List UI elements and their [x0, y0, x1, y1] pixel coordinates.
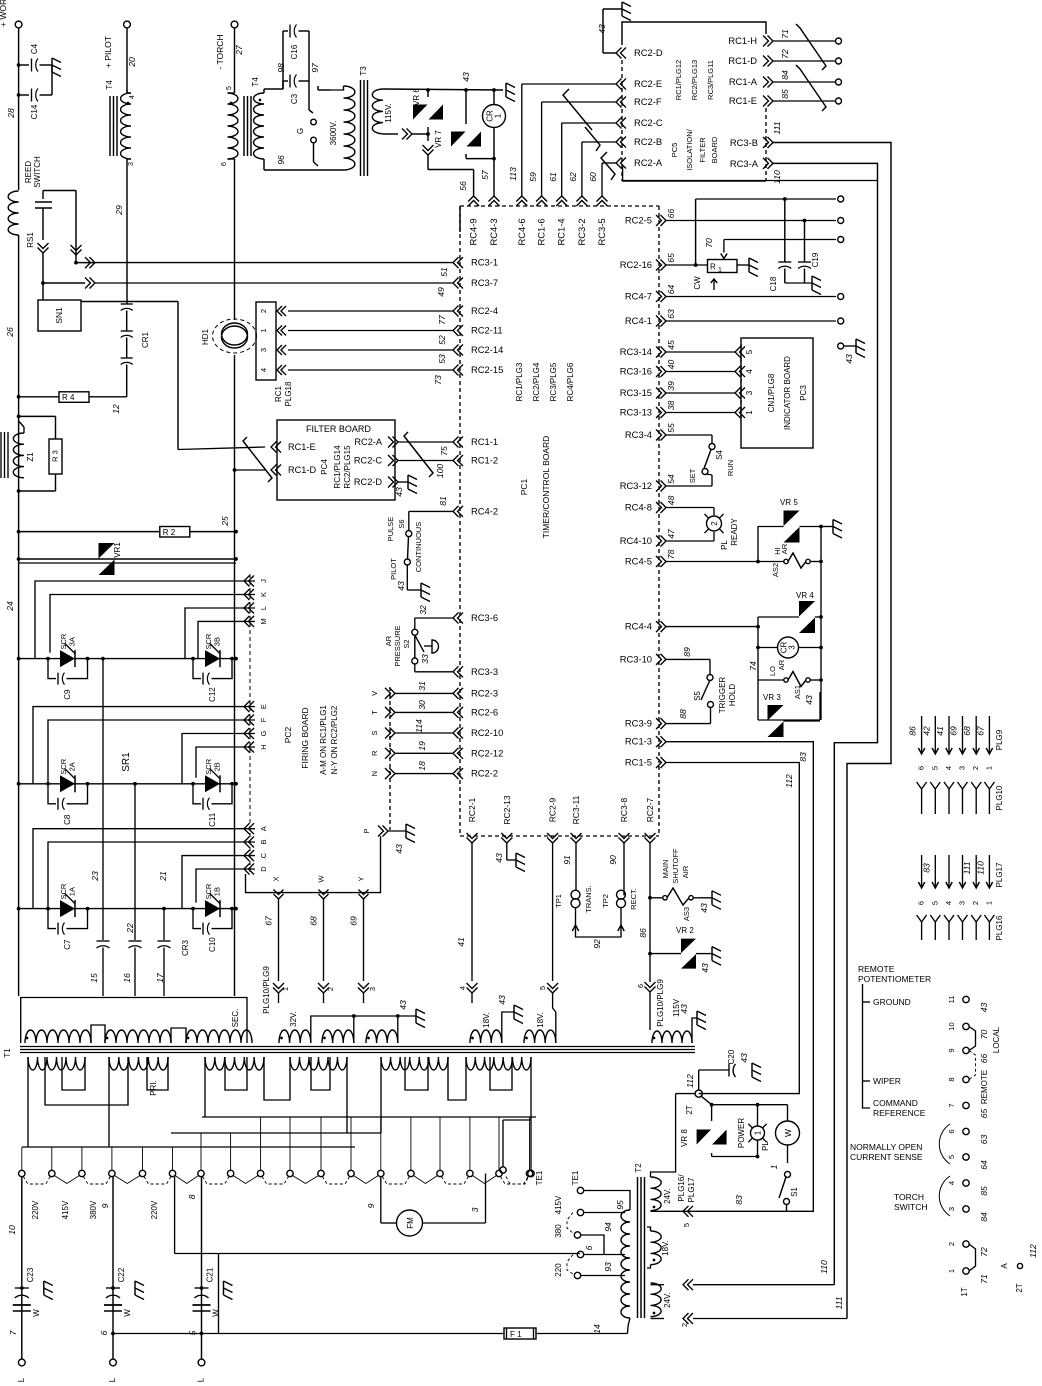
- connector RC2-13 bottom of PC1: [501, 795, 512, 843]
- spark gap G: [296, 119, 318, 166]
- svg-text:21: 21: [158, 871, 168, 882]
- terminal T2 tap 415V: [554, 1187, 584, 1214]
- wire pri bus A: [202, 1116, 536, 1118]
- connector RC1-D on filter: [271, 465, 316, 476]
- svg-text:115V.: 115V.: [384, 103, 393, 123]
- connector pin 1 on PC3: [735, 407, 754, 418]
- label 72: [780, 49, 790, 59]
- svg-text:PC3: PC3: [799, 385, 808, 401]
- svg-text:RC2-6: RC2-6: [471, 706, 498, 717]
- arrow down reed left: [38, 243, 49, 300]
- label 83 bottom: [734, 1195, 744, 1205]
- svg-text:F 1: F 1: [510, 1330, 522, 1339]
- pin PLG16-3: [958, 915, 968, 940]
- svg-text:S1: S1: [790, 1187, 799, 1197]
- board PC3 left dashed edge: [740, 344, 742, 420]
- svg-text:C18: C18: [769, 276, 778, 291]
- svg-text:RC4/PLG6: RC4/PLG6: [566, 362, 575, 401]
- capacitor stack CR1: [121, 304, 150, 392]
- connector RC2-9 bottom of PC1: [547, 797, 558, 843]
- connector R on PC2: [370, 748, 395, 759]
- svg-text:RC2-B: RC2-B: [634, 136, 662, 147]
- wire gate A: [33, 829, 255, 909]
- label 113: [508, 167, 518, 181]
- connector RC3-6 on PC1: [453, 612, 498, 624]
- svg-text:70: 70: [704, 238, 714, 248]
- svg-text:X: X: [272, 876, 281, 881]
- svg-text:380: 380: [554, 1224, 563, 1238]
- label 43 above PC5: [597, 24, 607, 34]
- thyristor SCR 3A: [59, 633, 77, 667]
- wire main bus to SCR bank: [18, 563, 20, 996]
- vertical bus 22: [125, 907, 166, 940]
- wire tap 220b to T2: [581, 1275, 626, 1277]
- svg-text:110: 110: [975, 861, 985, 875]
- wire RC2-13 drop: [494, 843, 525, 872]
- wire RC3-10 to S5: [666, 659, 710, 674]
- transformer T4 torch left winding: [221, 86, 238, 166]
- label 84 strip: [979, 1212, 989, 1222]
- svg-text:PLG10: PLG10: [995, 785, 1004, 810]
- svg-text:2: 2: [971, 901, 980, 905]
- terminal T2 tap 220b: [574, 1262, 613, 1279]
- svg-text:SEC.: SEC.: [231, 1009, 240, 1028]
- terminal T2 tap 380: [554, 1209, 584, 1237]
- connector RC2-A on filter: [354, 437, 398, 448]
- svg-text:VR 7: VR 7: [434, 130, 443, 148]
- svg-text:PLG18: PLG18: [284, 381, 293, 406]
- switch blade at 112 node: [701, 1096, 713, 1107]
- wire main bus mid: [18, 491, 20, 563]
- crossover slash filter left: [243, 437, 272, 482]
- svg-text:90: 90: [608, 855, 618, 865]
- svg-text:6: 6: [584, 1245, 594, 1250]
- pin PLG16-2: [971, 915, 981, 940]
- connector RC2-12 on PC1: [453, 747, 503, 759]
- wire torch down: [234, 28, 236, 93]
- wire RC1-5 net112: [666, 763, 799, 1094]
- label 41: [935, 726, 945, 736]
- pin PLG17-6: [917, 855, 926, 905]
- pressure dome S2: [424, 640, 439, 653]
- svg-text:C11: C11: [208, 812, 217, 827]
- svg-text:RC1-D: RC1-D: [288, 465, 316, 475]
- label PC1: [519, 478, 529, 495]
- label T4 (torch): [251, 77, 260, 87]
- svg-text:28: 28: [6, 108, 16, 119]
- wire RC2-C to RC1-2: [398, 460, 453, 462]
- svg-text:89: 89: [682, 647, 692, 657]
- vertical bus 23: [90, 657, 105, 940]
- wire box bottom to right rail: [758, 692, 820, 720]
- label FIRING BOARD: [300, 707, 310, 768]
- svg-text:65: 65: [666, 253, 676, 263]
- svg-text:43: 43: [497, 995, 507, 1005]
- label 380V: [89, 1200, 110, 1219]
- svg-text:380V: 380V: [89, 1200, 98, 1219]
- svg-text:68: 68: [309, 916, 319, 926]
- wire SCR1 anode row: [17, 907, 238, 911]
- capacitor W C22: [104, 1305, 132, 1317]
- wire T4hv top to C16: [264, 31, 288, 93]
- ground C21: [202, 1281, 233, 1300]
- svg-text:98: 98: [276, 63, 286, 73]
- svg-text:RC4-8: RC4-8: [625, 502, 652, 513]
- wire RC4-4 into box: [666, 617, 760, 680]
- svg-text:1: 1: [745, 410, 754, 415]
- label 96: [276, 155, 286, 165]
- svg-text:S: S: [370, 730, 379, 735]
- label 26: [5, 327, 15, 338]
- switch blade RC1-A/RC1-E: [796, 65, 826, 111]
- label 111 bottom: [834, 1296, 844, 1309]
- connector RC3-7 on PC1: [453, 277, 498, 289]
- connector RC4-6 top of PC1: [516, 196, 528, 246]
- connector RC1-1 on PC1: [453, 436, 498, 448]
- svg-text:11: 11: [947, 996, 956, 1004]
- label 86: [638, 928, 648, 938]
- svg-text:6: 6: [99, 1330, 109, 1335]
- connector RC1-E on filter: [271, 442, 316, 453]
- svg-text:RC3-14: RC3-14: [620, 346, 652, 357]
- svg-text:10: 10: [7, 1225, 17, 1235]
- svg-text:75: 75: [439, 446, 449, 456]
- connector RC3-12 on PC1: [620, 480, 666, 492]
- label 112 strip: [1028, 1244, 1038, 1258]
- label 88: [678, 709, 688, 719]
- svg-text:43: 43: [844, 354, 854, 364]
- connector box RC1/PLG18: [256, 302, 293, 406]
- svg-text:47: 47: [666, 528, 676, 539]
- label PC2: [283, 726, 293, 743]
- svg-text:24V.: 24V.: [663, 1188, 672, 1204]
- label 70 strip: [979, 1030, 989, 1040]
- svg-text:V: V: [370, 691, 379, 696]
- capacitor bank CR3 caps: [97, 939, 191, 996]
- label 7: [8, 1329, 18, 1335]
- label 67: [264, 915, 274, 926]
- connector RC2-B on PC5: [616, 136, 662, 148]
- svg-text:43: 43: [597, 24, 607, 34]
- wire RC4-8 to PL2: [666, 508, 714, 516]
- svg-text:43: 43: [396, 581, 406, 591]
- node R4 left: [17, 395, 21, 399]
- svg-text:C: C: [259, 852, 268, 858]
- svg-text:TP1: TP1: [554, 894, 563, 908]
- label L C21: [197, 1377, 206, 1382]
- label PC4: [320, 459, 329, 475]
- svg-text:LO: LO: [768, 666, 777, 676]
- svg-text:39: 39: [666, 381, 676, 391]
- svg-text:3600V.: 3600V.: [329, 121, 338, 146]
- switch S4: [702, 444, 724, 475]
- svg-text:2T: 2T: [685, 1105, 694, 1114]
- label 115V: [672, 998, 681, 1017]
- label LO AR: [768, 659, 786, 676]
- connector pin 4 on PC3: [735, 366, 754, 377]
- svg-text:PC1: PC1: [519, 478, 529, 495]
- svg-text:FILTER BOARD: FILTER BOARD: [306, 424, 371, 434]
- connector RC2-10 on PC1: [453, 727, 503, 739]
- label 43 at top bus: [461, 72, 471, 82]
- connector RC2-11 on PC1: [453, 325, 503, 337]
- svg-text:RC2-12: RC2-12: [471, 747, 503, 758]
- terminal strip 6: [947, 1128, 969, 1134]
- svg-text:PLG9: PLG9: [995, 729, 1004, 750]
- label PL READY: [720, 518, 739, 550]
- label PLG16/PLG17: [677, 1174, 696, 1203]
- wire RC3-9 to S5: [666, 708, 711, 724]
- connector RC2-6 on PC1: [453, 706, 498, 718]
- svg-text:85: 85: [780, 89, 790, 99]
- svg-text:1B: 1B: [213, 887, 222, 896]
- connector RC3-11 bottom of PC1: [571, 795, 582, 843]
- label PILOT: [389, 558, 398, 580]
- svg-text:71: 71: [780, 29, 790, 39]
- R1 to ground: [737, 258, 758, 277]
- switch S1: [779, 1171, 799, 1211]
- svg-text:R: R: [710, 263, 716, 272]
- pin PLG9-3: [958, 716, 967, 770]
- label RC2/PLG15: [343, 445, 352, 489]
- svg-text:AIR: AIR: [681, 865, 690, 878]
- capacitor C3: [283, 75, 299, 105]
- pin PLG10-1: [984, 782, 994, 814]
- snubber capacitor C12: [191, 657, 234, 702]
- label 32V.: [289, 1011, 298, 1027]
- wire RC2-16 to R1: [666, 264, 708, 266]
- pin PLG9-6: [917, 716, 926, 770]
- label 71 strip: [979, 1274, 989, 1284]
- label 18: [417, 761, 427, 771]
- svg-text:1: 1: [281, 987, 290, 991]
- wire lamp rail: [712, 1156, 758, 1158]
- wire RC3-7: [43, 278, 453, 289]
- svg-text:RC2-E: RC2-E: [634, 78, 662, 89]
- svg-text:4: 4: [944, 766, 953, 770]
- svg-text:72: 72: [780, 49, 790, 59]
- svg-text:C3: C3: [290, 93, 299, 104]
- board PC1 left edge: [459, 206, 461, 836]
- svg-text:RC3-12: RC3-12: [620, 480, 652, 491]
- capacitor W C23: [13, 1305, 41, 1317]
- svg-text:PL: PL: [761, 1141, 770, 1151]
- motor W: [776, 1105, 800, 1163]
- svg-text:PL: PL: [720, 540, 729, 550]
- svg-text:62: 62: [568, 172, 578, 182]
- svg-text:1: 1: [947, 1269, 956, 1273]
- label TE1 c: [571, 1170, 580, 1185]
- connector RC1-2 on PC1: [453, 455, 498, 467]
- svg-text:1: 1: [754, 1130, 763, 1135]
- svg-text:VR 2: VR 2: [676, 926, 694, 935]
- relay coil CR1 (circle): [483, 90, 506, 159]
- svg-text:RC2-A: RC2-A: [634, 157, 663, 168]
- terminal strip 11: [947, 996, 969, 1004]
- wire RC2 staircase y102: [542, 102, 616, 196]
- wire F1 to T2: [536, 1324, 628, 1334]
- svg-text:PLG10/PLG9: PLG10/PLG9: [262, 966, 271, 1014]
- svg-text:RC1/PLG3: RC1/PLG3: [515, 362, 524, 401]
- label 94: [603, 1222, 613, 1232]
- svg-text:23: 23: [90, 871, 100, 882]
- label 63 strip: [979, 1135, 989, 1145]
- label 33: [420, 654, 430, 664]
- connector RC1-4 top of PC1: [556, 196, 568, 246]
- connector RC3-10 on PC1: [620, 653, 666, 665]
- varistor VR3: [763, 693, 784, 737]
- pin PLG10-4: [944, 782, 954, 814]
- svg-text:2: 2: [259, 309, 268, 313]
- wire RC2-7 drop: [648, 843, 652, 982]
- svg-text:1: 1: [769, 1164, 779, 1169]
- label 27: [234, 44, 244, 56]
- svg-text:FIRING BOARD: FIRING BOARD: [300, 707, 310, 768]
- connector RC3-8 bottom of PC1: [619, 797, 630, 843]
- label A: [1000, 1263, 1009, 1269]
- wire RC2-D to ground: [603, 52, 616, 54]
- svg-text:77: 77: [437, 314, 447, 325]
- label 15: [89, 973, 99, 983]
- winding 32V b: [322, 1003, 354, 1043]
- connector F on PC2: [244, 715, 268, 726]
- svg-text:1: 1: [984, 901, 993, 905]
- svg-text:E: E: [259, 704, 268, 709]
- svg-text:53: 53: [437, 354, 447, 364]
- wire RC2 staircase y84: [522, 84, 616, 196]
- svg-text:19: 19: [417, 741, 427, 751]
- terminal strip 2: [947, 1241, 969, 1247]
- label CN1/PLG8: [767, 373, 776, 412]
- wire 24Va to S1: [664, 1210, 787, 1212]
- label LOCAL: [992, 1026, 1001, 1053]
- svg-text:PILOT: PILOT: [389, 558, 398, 580]
- svg-text:T1: T1: [3, 1048, 12, 1058]
- wire RC2-9 drop: [538, 843, 558, 1012]
- terminal strip 8: [947, 1076, 969, 1082]
- svg-text:+ PILOT: + PILOT: [103, 36, 113, 68]
- wire RC3-6 to S2: [415, 618, 453, 629]
- svg-text:6: 6: [917, 901, 926, 905]
- varistor VR7: [434, 90, 481, 159]
- wire C18/C19 common: [785, 276, 821, 295]
- svg-text:T4: T4: [105, 80, 114, 90]
- svg-text:RC3-10: RC3-10: [620, 653, 652, 664]
- node C21 junction: [200, 1286, 204, 1335]
- svg-text:REFERENCE: REFERENCE: [873, 1108, 926, 1118]
- svg-text:RS1: RS1: [26, 232, 35, 248]
- connector V on PC2: [370, 688, 395, 699]
- svg-text:56: 56: [458, 181, 468, 191]
- switch blade RC1-H/RC1-D: [796, 24, 826, 70]
- svg-text:24: 24: [5, 601, 15, 612]
- label 47: [666, 528, 676, 539]
- connector RC1-E on PC5: [729, 95, 842, 107]
- svg-text:W: W: [32, 1309, 41, 1317]
- svg-text:INDICATOR BOARD: INDICATOR BOARD: [783, 356, 792, 430]
- label 74: [748, 661, 758, 671]
- svg-text:4: 4: [947, 1181, 956, 1185]
- board PC2 right edge: [389, 687, 391, 830]
- label 55: [666, 423, 676, 433]
- svg-text:RC4-4: RC4-4: [625, 621, 652, 632]
- svg-text:RC3-2: RC3-2: [576, 218, 587, 245]
- terminal C23: [18, 1359, 25, 1366]
- connector K on PC2: [244, 589, 268, 600]
- wire pilot to CR1: [126, 159, 128, 304]
- svg-text:93: 93: [603, 1262, 613, 1272]
- svg-text:112: 112: [685, 1074, 695, 1088]
- wire N to PC1: [395, 773, 453, 775]
- svg-text:TRANS.: TRANS.: [584, 885, 593, 913]
- svg-text:CR3: CR3: [181, 939, 190, 956]
- svg-text:220V: 220V: [31, 1200, 40, 1219]
- pressure switch AS3 MAIN SHUTOFF AIR: [650, 888, 721, 909]
- wire RC1-3 net83: [664, 742, 813, 1212]
- svg-text:A: A: [259, 826, 268, 831]
- svg-text:RC2-3: RC2-3: [471, 687, 498, 698]
- svg-text:RC2-5: RC2-5: [625, 215, 652, 226]
- label 19: [417, 741, 427, 751]
- svg-text:H: H: [259, 744, 268, 749]
- svg-text:Y: Y: [357, 876, 366, 881]
- wire RC1-D from torch bus: [233, 468, 265, 472]
- label PLG17: [995, 862, 1004, 887]
- label CW: [693, 276, 717, 290]
- wire XWY header: [246, 836, 381, 893]
- label RC3/PLG5: [549, 362, 558, 401]
- svg-text:RC4-1: RC4-1: [625, 315, 652, 326]
- winding SEC 3: [171, 1028, 252, 1043]
- snubber capacitor C10: [191, 907, 234, 952]
- wire net111 RC3-B: [773, 143, 891, 1319]
- label pin 2: [326, 987, 335, 991]
- label 110 plg17: [975, 861, 985, 875]
- node reed-RC3-1: [74, 261, 78, 265]
- terminal A: [1017, 1263, 1022, 1268]
- bracket 3-4: [939, 1176, 950, 1216]
- label TORCH SWITCH: [894, 1192, 928, 1212]
- svg-text:2: 2: [947, 1242, 956, 1246]
- svg-text:RC2-2: RC2-2: [471, 768, 498, 779]
- wire RC3-4 to S4: [666, 435, 712, 443]
- label RC2/PLG4: [532, 362, 541, 401]
- label 63: [666, 309, 676, 319]
- connector RC2-F on PC5: [616, 96, 662, 108]
- label 78: [666, 550, 676, 560]
- svg-text:3: 3: [958, 901, 967, 905]
- svg-text:C10: C10: [208, 937, 217, 952]
- pin PLG9-5: [930, 716, 939, 770]
- svg-text:D: D: [259, 866, 268, 872]
- svg-text:RC4-3: RC4-3: [488, 218, 499, 245]
- label 67: [975, 725, 985, 736]
- wire 32V interconnect: [311, 1009, 425, 1043]
- label 5: [188, 1330, 198, 1335]
- lamp POWER PL: [737, 1105, 770, 1159]
- svg-text:72: 72: [979, 1247, 989, 1257]
- label 62: [568, 172, 578, 182]
- svg-text:6: 6: [221, 162, 228, 166]
- wire + WORK lead down: [18, 28, 20, 190]
- svg-text:25: 25: [220, 516, 230, 527]
- svg-text:15: 15: [89, 973, 99, 983]
- svg-text:R 3: R 3: [51, 450, 60, 462]
- board PC1 right edge: [658, 206, 660, 836]
- svg-text:PRI.: PRI.: [149, 1080, 158, 1096]
- wire gate K: [50, 595, 255, 653]
- label 56: [458, 181, 468, 191]
